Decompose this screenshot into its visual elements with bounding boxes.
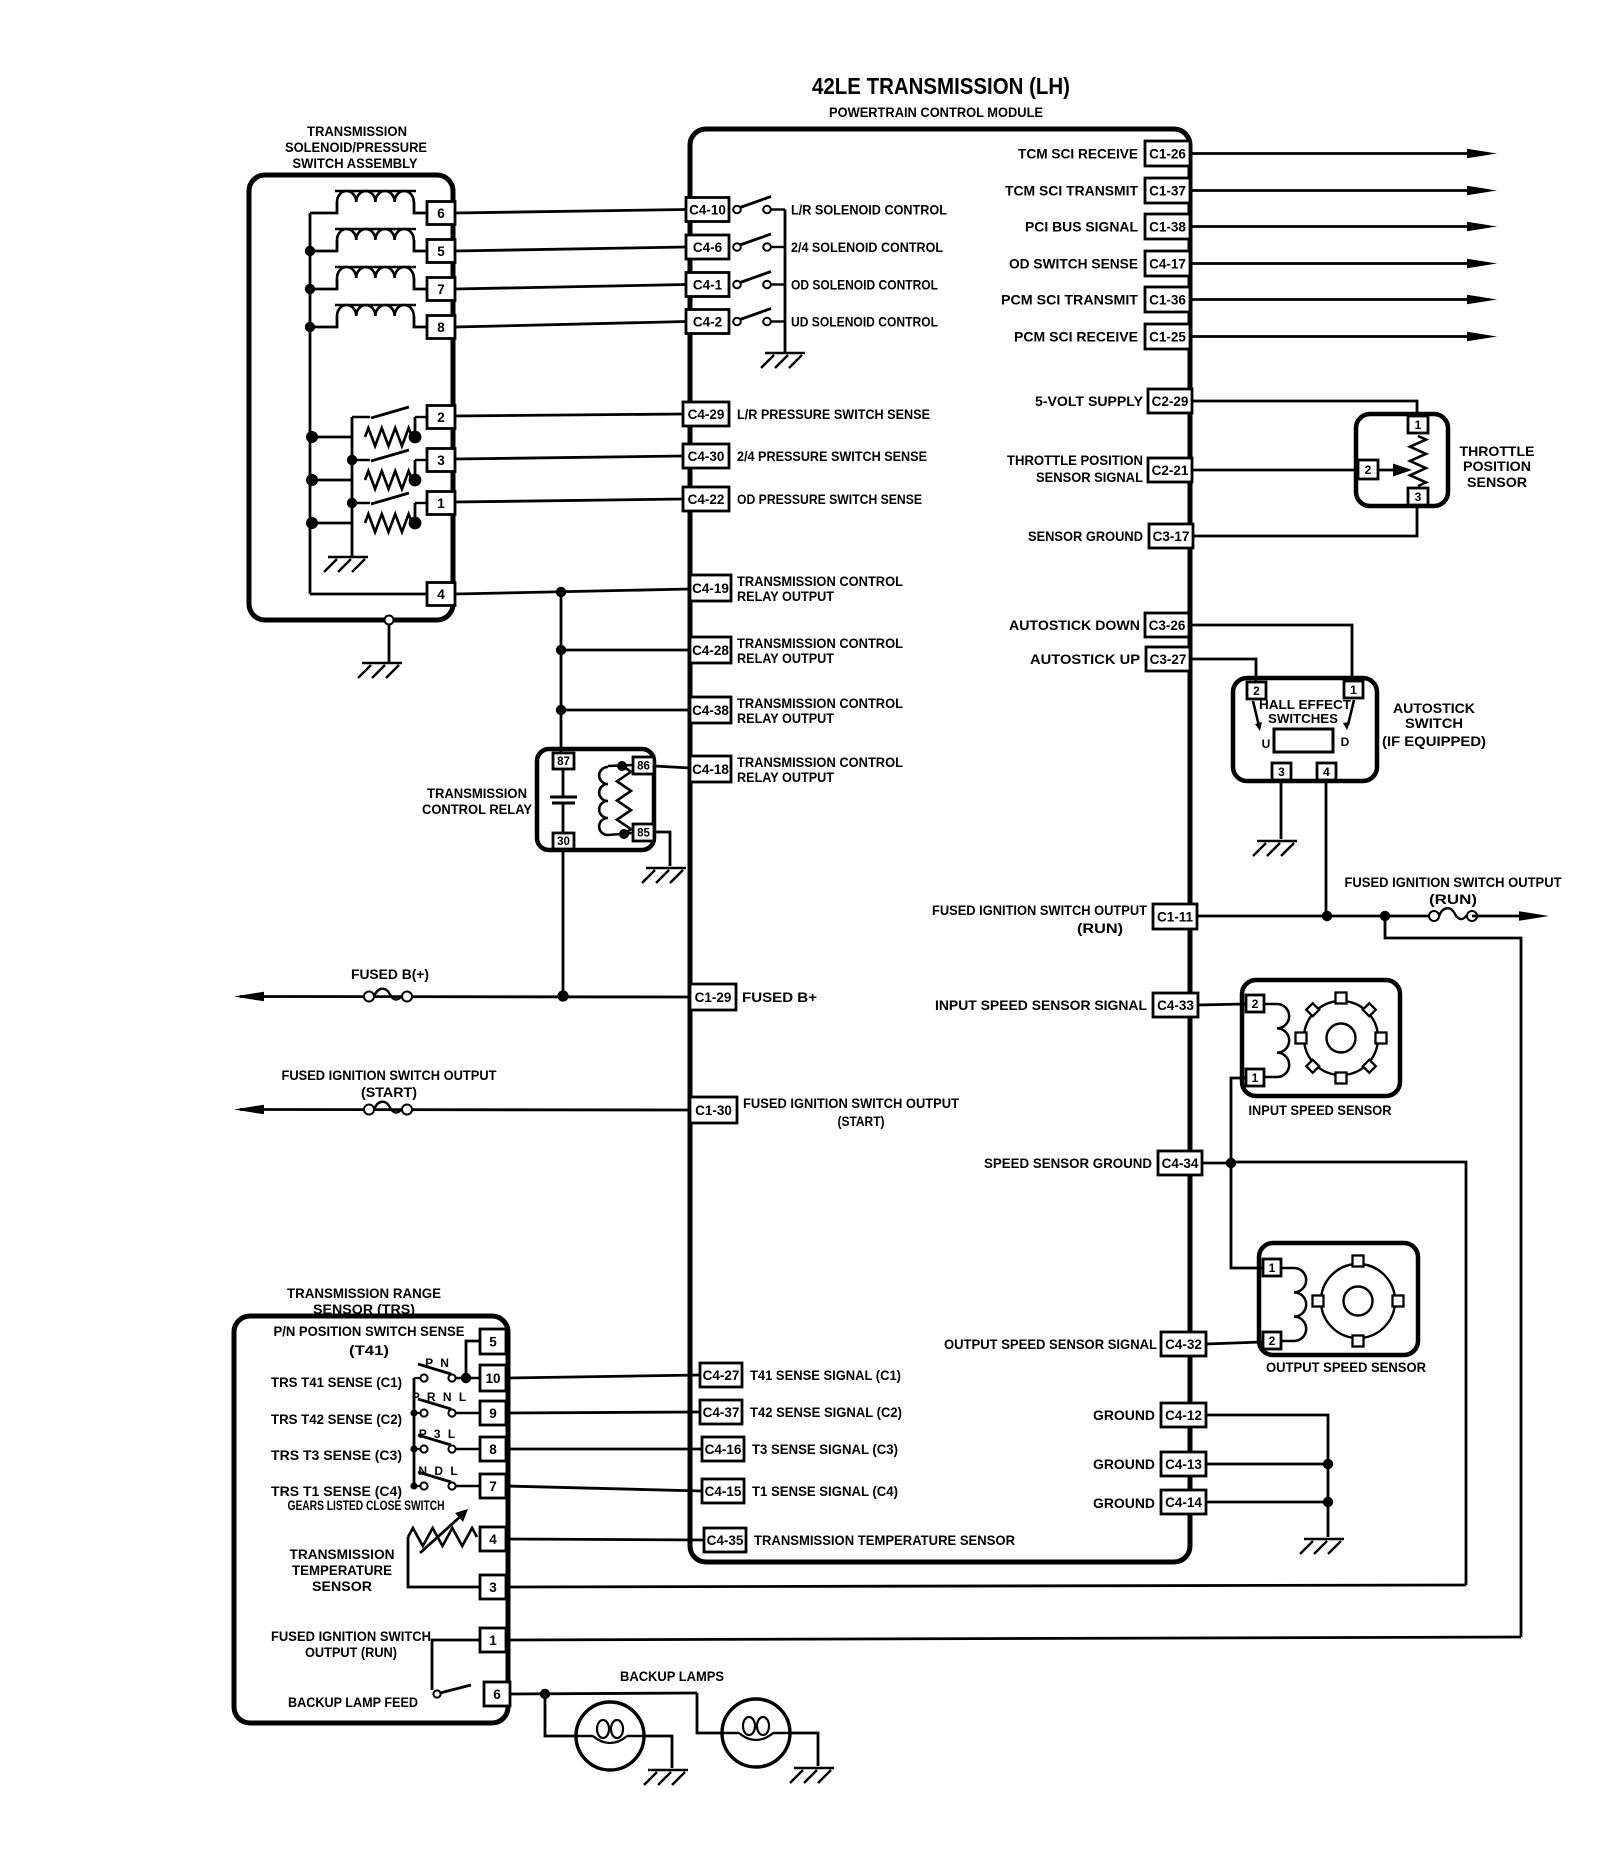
- wire pin 1 jumper to backup switch: [432, 1640, 480, 1690]
- svg-text:PCI BUS SIGNAL: PCI BUS SIGNAL: [1025, 219, 1138, 235]
- svg-text:RELAY OUTPUT: RELAY OUTPUT: [737, 588, 834, 604]
- junction: [557, 990, 568, 1001]
- svg-text:3: 3: [1278, 765, 1285, 779]
- svg-text:C4-30: C4-30: [688, 449, 725, 464]
- svg-text:RELAY OUTPUT: RELAY OUTPUT: [737, 650, 834, 666]
- connector C4-34: [1158, 1151, 1202, 1175]
- wire pin 5 jumper: [466, 1341, 480, 1378]
- svg-text:FUSED B(+): FUSED B(+): [351, 966, 429, 982]
- connector C4-28: [690, 637, 731, 663]
- wire C4-2: [455, 322, 686, 328]
- wire run feed to TRS pin 1: [506, 1637, 1521, 1640]
- svg-text:FUSED B+: FUSED B+: [742, 989, 817, 1005]
- range switch (pin 9): [414, 1412, 421, 1414]
- svg-text:C4-28: C4-28: [692, 643, 729, 658]
- junction: [306, 517, 318, 529]
- input speed sensor box: [1242, 980, 1400, 1096]
- wire fused B+: [240, 995, 690, 998]
- connector C4-18: [690, 756, 731, 782]
- svg-text:C4-1: C4-1: [693, 277, 723, 292]
- svg-text:T1 SENSE SIGNAL (C4): T1 SENSE SIGNAL (C4): [752, 1483, 898, 1499]
- svg-text:T3 SENSE SIGNAL (C3): T3 SENSE SIGNAL (C3): [752, 1441, 898, 1457]
- svg-text:2: 2: [1365, 463, 1372, 477]
- hall switch arm up: [1253, 701, 1259, 726]
- wire pin 4 to run feed: [1325, 781, 1328, 916]
- wire to input pin 1: [1231, 1078, 1245, 1163]
- svg-text:C4-32: C4-32: [1165, 1337, 1202, 1352]
- wire 5-volt supply: [1192, 401, 1417, 415]
- svg-text:SENSOR: SENSOR: [1467, 474, 1527, 490]
- connector C4-35: [704, 1528, 746, 1552]
- wire C4-16: [506, 1448, 702, 1451]
- svg-text:C3-26: C3-26: [1149, 618, 1186, 633]
- ground (lamp 1): [648, 1769, 688, 1771]
- junction: [619, 829, 629, 839]
- svg-text:AUTOSTICK DOWN: AUTOSTICK DOWN: [1009, 617, 1140, 633]
- wire C4-12 ground: [1206, 1415, 1328, 1537]
- pin 4: [1317, 763, 1336, 780]
- svg-text:C4-16: C4-16: [705, 1442, 742, 1457]
- junction: [461, 1373, 471, 1383]
- pin 6: [484, 1682, 510, 1706]
- svg-text:7: 7: [437, 282, 445, 297]
- arrow: [1467, 332, 1497, 342]
- pressure switch (pin 1): [312, 522, 352, 525]
- svg-text:C1-25: C1-25: [1149, 329, 1186, 344]
- tps wiper arrow: [1378, 469, 1396, 472]
- wire sensor ground: [1193, 508, 1417, 536]
- wire C4-29: [455, 414, 683, 416]
- svg-text:TRANSMISSION RANGE: TRANSMISSION RANGE: [287, 1285, 441, 1301]
- tps resistor: [1410, 436, 1426, 486]
- connector C1-38: [1145, 214, 1190, 239]
- driver switch C4-10: [733, 206, 741, 214]
- pressure switch (pin 3): [312, 479, 352, 482]
- svg-text:AUTOSTICK: AUTOSTICK: [1393, 700, 1475, 716]
- svg-text:4: 4: [437, 587, 445, 602]
- svg-text:TRS T42 SENSE (C2): TRS T42 SENSE (C2): [271, 1411, 402, 1427]
- svg-text:1: 1: [1350, 683, 1357, 697]
- connector C2-21: [1148, 458, 1192, 482]
- connector C3-17: [1149, 524, 1193, 548]
- svg-text:SWITCH ASSEMBLY: SWITCH ASSEMBLY: [293, 156, 418, 171]
- svg-text:T42 SENSE SIGNAL (C2): T42 SENSE SIGNAL (C2): [750, 1404, 902, 1420]
- pin 1: [427, 492, 455, 515]
- svg-text:GROUND: GROUND: [1093, 1407, 1155, 1423]
- wire input speed signal: [1198, 1004, 1245, 1005]
- relay resistor: [617, 767, 631, 834]
- solenoid coil (pin 7): [335, 266, 416, 268]
- pin 1: [480, 1628, 506, 1652]
- svg-text:(IF EQUIPPED): (IF EQUIPPED): [1382, 733, 1486, 749]
- driver switch C4-1: [733, 281, 741, 289]
- svg-text:P 3 L: P 3 L: [419, 1427, 457, 1441]
- output sensor tone wheel: [1321, 1264, 1395, 1338]
- pin 1: [1344, 681, 1363, 698]
- svg-text:C4-18: C4-18: [692, 762, 729, 777]
- svg-text:3: 3: [1415, 490, 1422, 504]
- svg-text:RELAY OUTPUT: RELAY OUTPUT: [737, 710, 834, 726]
- pressure switch (pin 2): [312, 436, 352, 439]
- pin 7: [427, 278, 455, 301]
- svg-text:SENSOR GROUND: SENSOR GROUND: [1028, 528, 1143, 544]
- arrow: [1467, 295, 1497, 305]
- arrow: [1519, 911, 1549, 921]
- junction: [556, 705, 566, 715]
- svg-text:C3-17: C3-17: [1153, 529, 1190, 544]
- wire to C4-38: [561, 709, 690, 712]
- wire to C4-28: [561, 649, 690, 652]
- fuse (B+): [364, 992, 374, 1002]
- svg-text:TRANSMISSION: TRANSMISSION: [290, 1546, 395, 1562]
- svg-text:PCM SCI RECEIVE: PCM SCI RECEIVE: [1014, 329, 1138, 345]
- svg-text:OD SWITCH SENSE: OD SWITCH SENSE: [1009, 256, 1138, 272]
- connector C4-2: [686, 310, 729, 334]
- svg-text:P R N L: P R N L: [412, 1390, 468, 1404]
- svg-text:2: 2: [1252, 997, 1259, 1011]
- connector C4-6: [686, 235, 729, 259]
- pin 3: [427, 449, 455, 472]
- svg-text:TCM SCI TRANSMIT: TCM SCI TRANSMIT: [1005, 183, 1138, 199]
- transmission temperature sensor (thermistor): [408, 1528, 477, 1546]
- hall switch arm down: [1348, 700, 1354, 725]
- connector C4-38: [690, 697, 731, 723]
- svg-text:SWITCH: SWITCH: [1405, 715, 1463, 731]
- connector C4-37: [700, 1400, 742, 1424]
- svg-text:INPUT SPEED SENSOR: INPUT SPEED SENSOR: [1249, 1102, 1392, 1118]
- svg-text:C4-27: C4-27: [703, 1368, 740, 1383]
- svg-text:2/4 SOLENOID CONTROL: 2/4 SOLENOID CONTROL: [791, 239, 943, 255]
- connector C4-32: [1161, 1332, 1206, 1356]
- svg-text:C3-27: C3-27: [1150, 652, 1187, 667]
- junction: [1380, 911, 1390, 921]
- svg-text:TRANSMISSION CONTROL: TRANSMISSION CONTROL: [737, 635, 903, 651]
- input sensor coil: [1264, 1003, 1277, 1006]
- svg-text:GROUND: GROUND: [1093, 1495, 1155, 1511]
- svg-text:TRANSMISSION: TRANSMISSION: [307, 124, 407, 139]
- connector C1-26: [1145, 141, 1190, 166]
- connector C4-13: [1161, 1452, 1206, 1476]
- wire C4-13 ground: [1206, 1463, 1328, 1466]
- svg-text:4: 4: [1323, 765, 1330, 779]
- junction: [306, 431, 318, 443]
- svg-text:RELAY OUTPUT: RELAY OUTPUT: [737, 769, 834, 785]
- wire C4-14 ground: [1206, 1501, 1328, 1504]
- wire temp sensor return: [506, 1585, 1466, 1587]
- svg-text:TEMPERATURE: TEMPERATURE: [292, 1562, 392, 1578]
- svg-text:1: 1: [1269, 1261, 1276, 1275]
- transmission solenoid/pressure switch assembly box: [249, 175, 453, 620]
- svg-text:C4-10: C4-10: [689, 202, 726, 217]
- wire thermistor to pin 3: [408, 1537, 480, 1587]
- svg-text:GEARS LISTED CLOSE SWITCH: GEARS LISTED CLOSE SWITCH: [288, 1497, 445, 1513]
- junction: [410, 1409, 417, 1416]
- svg-text:PCM SCI TRANSMIT: PCM SCI TRANSMIT: [1001, 292, 1138, 308]
- svg-text:2: 2: [437, 410, 445, 425]
- wire C1-36: [1190, 298, 1471, 301]
- pin 86: [633, 757, 654, 774]
- svg-text:C1-30: C1-30: [695, 1103, 732, 1118]
- pin 2: [427, 406, 455, 429]
- svg-text:2/4 PRESSURE SWITCH SENSE: 2/4 PRESSURE SWITCH SENSE: [737, 448, 927, 464]
- svg-text:1: 1: [1415, 418, 1422, 432]
- svg-text:THROTTLE POSITION: THROTTLE POSITION: [1007, 452, 1143, 468]
- svg-text:D: D: [1341, 735, 1350, 749]
- throttle position sensor box: [1356, 414, 1448, 506]
- svg-text:SPEED SENSOR GROUND: SPEED SENSOR GROUND: [984, 1155, 1152, 1171]
- svg-text:TRANSMISSION TEMPERATURE SENSO: TRANSMISSION TEMPERATURE SENSOR: [754, 1532, 1015, 1548]
- connector C4-17: [1145, 251, 1190, 276]
- wire pin 30 down: [562, 849, 565, 996]
- svg-text:TRS T3 SENSE (C3): TRS T3 SENSE (C3): [271, 1447, 402, 1463]
- arrow: [1467, 186, 1497, 196]
- wire C4-35: [506, 1539, 704, 1540]
- svg-text:42LE TRANSMISSION (LH): 42LE TRANSMISSION (LH): [812, 73, 1070, 99]
- relay K1 box: [537, 749, 654, 850]
- junction: [556, 645, 566, 655]
- junction: [556, 587, 566, 597]
- svg-text:(START): (START): [838, 1113, 885, 1129]
- connector C4-22: [683, 487, 729, 511]
- relay coil: [599, 767, 608, 835]
- wire autostick up: [1190, 659, 1256, 681]
- wire C4-27: [506, 1375, 700, 1378]
- svg-text:6: 6: [493, 1687, 501, 1702]
- wire run output: [1197, 915, 1434, 918]
- svg-text:CONTROL RELAY: CONTROL RELAY: [422, 801, 533, 817]
- connector C1-25: [1145, 324, 1190, 349]
- PCM module box: [690, 129, 1190, 1562]
- ground (pressure switches): [328, 556, 368, 558]
- connector C4-15: [702, 1479, 744, 1503]
- junction: [305, 246, 315, 256]
- svg-text:3: 3: [489, 1580, 497, 1595]
- relay capacitor: [562, 769, 565, 797]
- connector C1-36: [1145, 287, 1190, 312]
- solenoid coil (pin 5): [335, 228, 416, 230]
- svg-text:SENSOR: SENSOR: [312, 1578, 372, 1594]
- svg-text:SOLENOID/PRESSURE: SOLENOID/PRESSURE: [285, 140, 427, 155]
- svg-text:C1-11: C1-11: [1157, 909, 1194, 924]
- wire C4-15: [506, 1486, 702, 1491]
- svg-text:N D L: N D L: [418, 1464, 459, 1478]
- pin 8: [480, 1437, 506, 1461]
- wire C4-1: [455, 285, 686, 290]
- wire C1-26: [1190, 152, 1471, 155]
- backup lamp 1: [576, 1702, 644, 1770]
- connector C1-37: [1145, 178, 1190, 203]
- svg-text:POWERTRAIN CONTROL MODULE: POWERTRAIN CONTROL MODULE: [829, 105, 1043, 120]
- connector C3-26: [1145, 613, 1189, 637]
- svg-text:FUSED IGNITION SWITCH OUTPUT: FUSED IGNITION SWITCH OUTPUT: [282, 1067, 497, 1083]
- svg-text:C4-6: C4-6: [693, 240, 723, 255]
- arrow: [1467, 259, 1497, 269]
- wire C4-17: [1190, 262, 1471, 265]
- svg-text:FUSED IGNITION SWITCH OUTPUT: FUSED IGNITION SWITCH OUTPUT: [1345, 874, 1562, 890]
- range switch (pin 10): [414, 1377, 421, 1379]
- svg-text:C4-13: C4-13: [1165, 1457, 1202, 1472]
- wire to lamp 1: [545, 1694, 576, 1736]
- wire pin 86 to C4-18: [654, 766, 690, 768]
- wire lamp 1 to ground: [644, 1736, 672, 1768]
- svg-text:86: 86: [637, 761, 650, 773]
- svg-text:L/R SOLENOID CONTROL: L/R SOLENOID CONTROL: [791, 202, 947, 218]
- wire C4-10: [455, 210, 686, 214]
- wire switch common: [351, 417, 354, 556]
- svg-text:BACKUP LAMP FEED: BACKUP LAMP FEED: [288, 1694, 418, 1710]
- connector C4-33: [1153, 993, 1198, 1017]
- junction: [540, 1689, 550, 1699]
- connector C4-16: [702, 1437, 744, 1461]
- junction: [1226, 1158, 1236, 1168]
- pin 5: [427, 240, 455, 263]
- ground (PCM): [1304, 1538, 1344, 1540]
- svg-text:TRANSMISSION CONTROL: TRANSMISSION CONTROL: [737, 573, 903, 589]
- wire lamp 2 to ground: [790, 1733, 818, 1766]
- svg-text:85: 85: [637, 828, 650, 840]
- wire relay feed bus: [560, 592, 563, 753]
- svg-text:9: 9: [489, 1406, 497, 1421]
- pin 1: [1246, 1069, 1264, 1086]
- svg-text:1: 1: [1252, 1071, 1259, 1085]
- pin 10: [480, 1365, 506, 1391]
- svg-text:OUTPUT (RUN): OUTPUT (RUN): [305, 1644, 397, 1660]
- svg-text:(RUN): (RUN): [1429, 891, 1477, 907]
- wire backup lamp feed: [510, 1693, 697, 1694]
- svg-text:C4-35: C4-35: [707, 1533, 744, 1548]
- pin 2: [1263, 1332, 1281, 1349]
- svg-text:FUSED IGNITION SWITCH OUTPUT: FUSED IGNITION SWITCH OUTPUT: [743, 1095, 959, 1111]
- connector C4-29: [683, 402, 729, 426]
- backup lamp 2: [722, 1699, 790, 1767]
- wire driver common: [784, 210, 787, 353]
- svg-text:TRS T41 SENSE (C1): TRS T41 SENSE (C1): [271, 1374, 402, 1390]
- pin 87: [553, 753, 574, 769]
- svg-text:OUTPUT SPEED SENSOR SIGNAL: OUTPUT SPEED SENSOR SIGNAL: [944, 1336, 1157, 1352]
- output sensor coil: [1281, 1267, 1294, 1270]
- svg-text:FUSED IGNITION SWITCH OUTPUT: FUSED IGNITION SWITCH OUTPUT: [932, 902, 1147, 918]
- svg-text:U: U: [1262, 737, 1271, 751]
- pin 3: [480, 1575, 506, 1599]
- solenoid coil (pin 6): [335, 190, 416, 192]
- arrow: [1467, 222, 1497, 232]
- svg-text:C1-38: C1-38: [1149, 219, 1186, 234]
- pin 7: [480, 1474, 506, 1498]
- autostick switch box: [1233, 678, 1377, 781]
- driver switch C4-2: [733, 318, 741, 326]
- wire to lamp 2: [697, 1693, 722, 1733]
- input sensor tone wheel: [1304, 1001, 1378, 1075]
- pin 2: [1358, 460, 1378, 479]
- transmission range sensor box: [234, 1316, 508, 1723]
- svg-text:BACKUP LAMPS: BACKUP LAMPS: [620, 1668, 724, 1684]
- svg-text:6: 6: [437, 206, 445, 221]
- svg-text:GROUND: GROUND: [1093, 1456, 1155, 1472]
- connector C1-30: [690, 1097, 737, 1123]
- svg-text:C4-12: C4-12: [1165, 1408, 1202, 1423]
- wire ground return right: [1231, 1162, 1466, 1585]
- pin 85: [633, 824, 654, 841]
- svg-text:FUSED IGNITION SWITCH: FUSED IGNITION SWITCH: [271, 1628, 431, 1644]
- junction: [1323, 1497, 1333, 1507]
- pin 5: [480, 1329, 506, 1354]
- range switch (pin 7): [414, 1485, 421, 1487]
- connector C3-27: [1146, 647, 1190, 671]
- svg-text:HALL EFFECT: HALL EFFECT: [1259, 697, 1351, 712]
- svg-text:2: 2: [1269, 1334, 1276, 1348]
- pin 4: [480, 1527, 506, 1551]
- connector C2-29: [1148, 389, 1192, 413]
- wire autostick down: [1189, 625, 1352, 681]
- svg-text:THROTTLE: THROTTLE: [1460, 443, 1535, 459]
- connector C4-10: [686, 198, 729, 222]
- pin 30: [553, 833, 574, 849]
- svg-text:1: 1: [437, 496, 445, 511]
- svg-text:(T41): (T41): [349, 1342, 389, 1358]
- svg-text:SWITCHES: SWITCHES: [1268, 711, 1338, 726]
- connector C4-30: [683, 444, 729, 468]
- svg-text:L/R PRESSURE SWITCH SENSE: L/R PRESSURE SWITCH SENSE: [737, 406, 930, 422]
- svg-text:C4-33: C4-33: [1157, 998, 1194, 1013]
- svg-text:TCM SCI RECEIVE: TCM SCI RECEIVE: [1018, 146, 1138, 162]
- wire speed sensor ground: [1202, 1162, 1231, 1165]
- connector C4-1: [686, 273, 729, 297]
- range switch (pin 8): [414, 1448, 421, 1450]
- svg-text:C4-14: C4-14: [1165, 1495, 1202, 1510]
- svg-text:TRANSMISSION CONTROL: TRANSMISSION CONTROL: [737, 754, 903, 770]
- svg-text:(START): (START): [361, 1084, 417, 1100]
- fuse (run): [1429, 911, 1439, 921]
- pin 9: [480, 1401, 506, 1425]
- svg-text:C4-15: C4-15: [705, 1484, 742, 1499]
- pin 8: [427, 316, 455, 339]
- connector C4-12: [1161, 1403, 1206, 1427]
- svg-text:C2-29: C2-29: [1152, 394, 1189, 409]
- svg-text:POSITION: POSITION: [1463, 458, 1531, 474]
- svg-text:OUTPUT SPEED SENSOR: OUTPUT SPEED SENSOR: [1266, 1359, 1426, 1375]
- wire C1-37: [1190, 189, 1471, 192]
- svg-text:8: 8: [489, 1442, 497, 1457]
- junction: [306, 474, 318, 486]
- connector C4-14: [1161, 1490, 1206, 1514]
- svg-text:OD SOLENOID CONTROL: OD SOLENOID CONTROL: [791, 277, 938, 293]
- svg-text:10: 10: [485, 1371, 500, 1386]
- case ground lead: [385, 616, 394, 625]
- pin 3: [1408, 488, 1428, 505]
- pin 1: [1408, 416, 1428, 433]
- junction: [1323, 1459, 1333, 1469]
- svg-text:OD PRESSURE SWITCH SENSE: OD PRESSURE SWITCH SENSE: [737, 491, 922, 507]
- wire output speed signal: [1206, 1342, 1262, 1344]
- svg-text:UD SOLENOID CONTROL: UD SOLENOID CONTROL: [791, 314, 938, 330]
- arrow (to ignition switch): [234, 1105, 264, 1115]
- wire C4-22: [455, 499, 683, 502]
- svg-text:3: 3: [437, 453, 445, 468]
- connector C4-27: [700, 1363, 742, 1387]
- ground (assembly case): [362, 662, 402, 664]
- junction: [617, 761, 627, 771]
- svg-text:87: 87: [557, 756, 570, 768]
- svg-text:2: 2: [1253, 684, 1260, 698]
- svg-text:C4-2: C4-2: [693, 314, 722, 329]
- wire pin 3 to ground: [1280, 781, 1283, 839]
- svg-text:C1-29: C1-29: [695, 990, 732, 1005]
- svg-text:5: 5: [489, 1334, 497, 1349]
- backup lamp switch: [433, 1690, 440, 1697]
- wire C4-30: [455, 456, 683, 459]
- svg-text:5-VOLT SUPPLY: 5-VOLT SUPPLY: [1035, 393, 1144, 409]
- svg-text:T41 SENSE SIGNAL (C1): T41 SENSE SIGNAL (C1): [750, 1367, 901, 1383]
